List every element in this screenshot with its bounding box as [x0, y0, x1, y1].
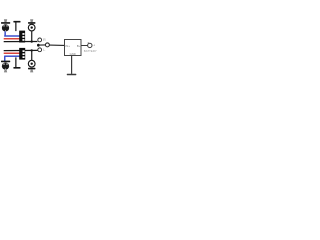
terminal T2 stem — [15, 57, 16, 67]
speaker SP2 bottom stub — [4, 70, 7, 73]
switch SW1 circle — [45, 43, 49, 47]
buzzer BZ2 lead up — [31, 51, 32, 61]
buzzer BZ1 lead down — [31, 31, 32, 42]
wire module to battery — [81, 45, 88, 47]
speaker SP1 top bar — [1, 22, 10, 24]
buzzer BZ2 body — [28, 60, 35, 67]
svg-text:GND: GND — [70, 52, 76, 56]
jack L circle — [38, 48, 42, 52]
jack R circle — [38, 38, 42, 42]
ground stem — [71, 56, 73, 74]
speaker SP2 body — [2, 62, 9, 69]
junction on wire1 — [31, 40, 33, 42]
buzzer BZ2 bottom stub — [30, 69, 33, 72]
wire black bundle1 to jack R — [4, 41, 38, 43]
terminal T2 bar — [13, 67, 20, 69]
module U1 body — [65, 40, 82, 56]
svg-text:R: R — [43, 38, 46, 42]
junction node sleeve — [37, 44, 40, 47]
speaker SP1 top terminal stub — [4, 19, 7, 22]
terminal T1 bar — [13, 21, 20, 23]
battery connector circle — [88, 43, 92, 47]
junction on wire2 — [31, 49, 33, 51]
battery connector tab — [87, 42, 90, 43]
wire red bundle1 — [4, 38, 20, 40]
wire switch to module — [49, 44, 64, 46]
connector J1 body — [19, 31, 25, 43]
ground bar — [67, 74, 77, 76]
svg-text:L: L — [43, 48, 45, 52]
svg-text:B+: B+ — [77, 44, 81, 48]
buzzer BZ2 bottom bar — [28, 68, 35, 70]
terminal T1 stem — [15, 23, 16, 32]
buzzer BZ1 body — [28, 24, 35, 31]
buzzer BZ1 top stub — [30, 19, 33, 22]
wire blue bundle2 — [4, 55, 20, 57]
speaker SP1 body — [2, 24, 9, 31]
wire blue lead SP2 — [4, 56, 6, 61]
svg-text:BATTERY: BATTERY — [84, 49, 97, 53]
speaker SP2 top bar — [1, 61, 10, 63]
wire blue bundle1 — [4, 35, 20, 37]
wire red bundle2 — [4, 52, 20, 54]
buzzer BZ1 top bar — [28, 22, 35, 24]
wire black bundle2 to jack L — [4, 49, 38, 51]
wire to switch — [40, 44, 46, 46]
svg-text:IN+: IN+ — [65, 44, 70, 48]
wire blue lead SP1 — [4, 31, 6, 36]
connector J2 body — [19, 48, 25, 60]
svg-text:+: + — [93, 44, 95, 48]
